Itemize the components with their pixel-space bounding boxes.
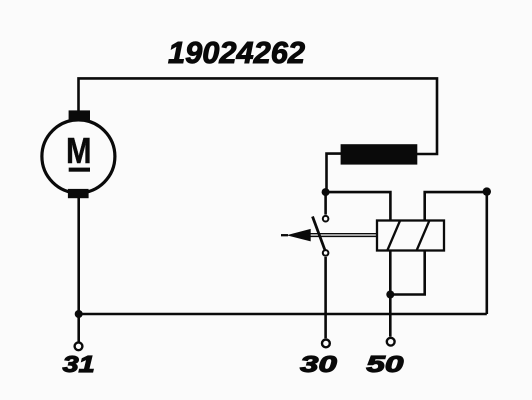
resistor (solid block) — [341, 144, 418, 164]
wire: node A down to switch upper contact — [324, 192, 327, 215]
switch S1 blade — [313, 217, 326, 251]
actuator rod lower line — [310, 235, 378, 237]
terminal 30 circle — [322, 340, 330, 348]
relay coil diagonal 2 — [417, 221, 430, 251]
wire: bottom rail — [79, 313, 487, 316]
motor M1 circle — [42, 120, 115, 193]
svg-text:M: M — [66, 130, 92, 171]
wire: relay bottom right terminal down and left to node C — [390, 251, 424, 295]
wire: top rail from motor to resistor right end — [79, 78, 438, 154]
node A junction dot — [322, 188, 330, 196]
actuator rod upper line — [310, 233, 378, 235]
svg-text:50: 50 — [366, 351, 403, 377]
motor top brush — [69, 110, 90, 120]
actuator arrow head — [287, 229, 311, 242]
wire: relay coil top right terminal to node B — [425, 192, 487, 220]
switch S1 lower contact — [323, 250, 329, 256]
relay solenoid K1 box — [377, 221, 444, 251]
node B junction dot — [483, 187, 491, 195]
relay coil diagonal 1 — [387, 221, 400, 251]
motor underline — [69, 168, 90, 172]
junction dot at motor/31 — [75, 310, 83, 318]
node C junction dot — [386, 291, 394, 299]
svg-text:30: 30 — [300, 351, 337, 377]
terminal 50 circle — [387, 338, 395, 346]
svg-text:31: 31 — [63, 351, 95, 377]
actuator arrow tail line — [281, 234, 288, 236]
motor bottom brush — [68, 189, 89, 198]
wire: switch lower contact down to terminal 30 — [324, 257, 327, 338]
wire: node C down to terminal 50 — [389, 295, 392, 337]
wire: node A right to relay coil top left terminal — [326, 192, 391, 220]
switch S1 upper contact — [323, 216, 329, 222]
wire: motor bottom down to terminal 31 — [77, 198, 80, 342]
wire: relay bottom left terminal down to node C — [389, 251, 392, 295]
wire: resistor left lead down to node A — [327, 154, 342, 191]
terminal 31 circle — [75, 342, 83, 350]
svg-text:19024262: 19024262 — [168, 36, 305, 70]
wire: node B down to bottom rail — [485, 192, 488, 314]
